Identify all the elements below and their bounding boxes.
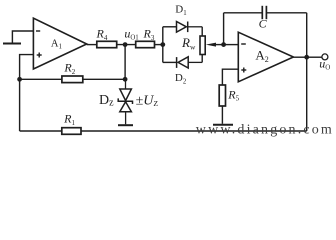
wire R5 down: [221, 106, 223, 124]
ground: [213, 124, 233, 126]
svg-text:R2: R2: [63, 61, 75, 76]
wire capacitor branch right: [266, 12, 306, 14]
wire bridge bottom branch: [163, 61, 177, 63]
wire R2 to zener node: [83, 78, 125, 80]
svg-text:uO: uO: [319, 56, 330, 71]
label A1 minus: [36, 30, 40, 32]
node zener top: [123, 77, 128, 82]
svg-text:±UZ: ±UZ: [136, 93, 159, 108]
svg-text:R5: R5: [227, 87, 239, 102]
svg-text:Dz: Dz: [99, 93, 114, 109]
op-amp A2: [238, 32, 293, 82]
wire A2 plus input: [222, 69, 238, 85]
wire R3 to bridge: [155, 44, 163, 46]
resistor R1: [62, 128, 81, 135]
svg-text:R4: R4: [96, 27, 108, 42]
node A1 plus junction: [17, 77, 22, 82]
wire wiper to A2 minus: [224, 44, 239, 46]
node uO1: [123, 42, 128, 47]
ground: [118, 124, 133, 126]
svg-text:uO1: uO1: [124, 27, 138, 42]
resistor R4: [97, 41, 117, 47]
wire uO1 down to zener node: [124, 45, 126, 80]
wire output node to bottom rail: [306, 57, 308, 131]
wire up to capacitor branch: [223, 13, 225, 45]
svg-text:A1: A1: [51, 38, 63, 50]
wire capacitor branch left: [224, 12, 263, 14]
terminal uO: [322, 54, 328, 60]
resistor R3: [136, 41, 155, 47]
wire A1 output: [87, 44, 97, 46]
diode D2: [177, 57, 203, 68]
wire to output terminal: [307, 56, 322, 58]
label A2 plus: [241, 68, 246, 73]
node output: [304, 55, 309, 60]
ground: [3, 31, 33, 44]
wire right vertical to output node: [306, 13, 308, 57]
wire A2 output: [293, 56, 306, 58]
potentiometer Rw: [200, 27, 224, 63]
node bridge left: [160, 42, 165, 47]
svg-text:Rw: Rw: [181, 35, 196, 51]
wire bottom rail right: [81, 130, 307, 132]
wire A1 plus input: [20, 55, 34, 131]
wire R4 to R3: [117, 44, 136, 46]
diode D1: [177, 22, 203, 33]
svg-text:C: C: [259, 17, 268, 31]
wire bridge top branch: [163, 26, 177, 28]
svg-text:A2: A2: [255, 47, 268, 64]
resistor R5: [219, 85, 225, 106]
wire bottom rail left: [20, 130, 62, 132]
svg-text:D1: D1: [175, 4, 186, 17]
label A1 plus: [37, 53, 42, 58]
label A2 minus: [241, 43, 246, 45]
wire junction to R2: [20, 78, 62, 80]
capacitor C: [262, 6, 266, 19]
node wiper: [221, 42, 226, 47]
zener Dz: [118, 79, 132, 124]
resistor R2: [62, 76, 83, 83]
svg-text:www.diangon.com: www.diangon.com: [196, 122, 332, 137]
op-amp A1: [33, 18, 86, 69]
wire bridge left vertical: [162, 27, 164, 63]
svg-text:D2: D2: [175, 72, 187, 85]
svg-text:R3: R3: [143, 27, 155, 42]
svg-text:R1: R1: [63, 112, 75, 127]
